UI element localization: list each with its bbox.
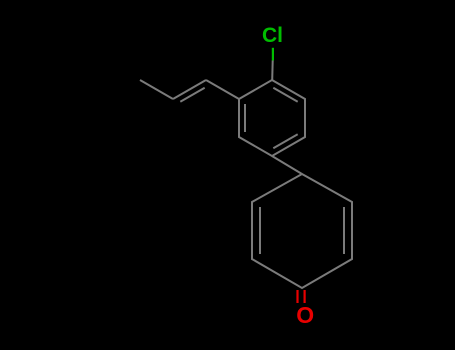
wire: C=O double bond right line [304,290,306,303]
wire: propenyl chain C1=C2 main [173,80,206,99]
node ring2: cyclohexadienone ring outline [252,174,352,288]
wire: ring2 inner double bond left [259,207,261,254]
wire: green bond stub below Cl [272,48,274,61]
svg-text:O: O [296,302,314,328]
wire: ring1 inner double bond LL1-UL1 [244,104,246,132]
node ring1: benzene ring (chlorophenyl) outline [239,80,305,156]
wire: ring1 inner double bond T1-UR1 [273,88,297,102]
wire: bond ring1 bottom to ring2 top [272,156,302,174]
wire: C=O double bond left line [296,290,298,303]
wire: ring2 inner double bond right [343,207,345,254]
svg-text:Cl: Cl [262,24,283,47]
wire: propenyl chain C2-C3 [140,80,173,99]
wire: bond Cl to ring1 top (gray lower half) [271,61,274,81]
wire: propenyl chain C1=C2 parallel [180,88,204,102]
wire: ring1 inner double bond LR1-B1 [273,134,297,148]
wire: propenyl chain bond ring to C1 [206,80,239,99]
